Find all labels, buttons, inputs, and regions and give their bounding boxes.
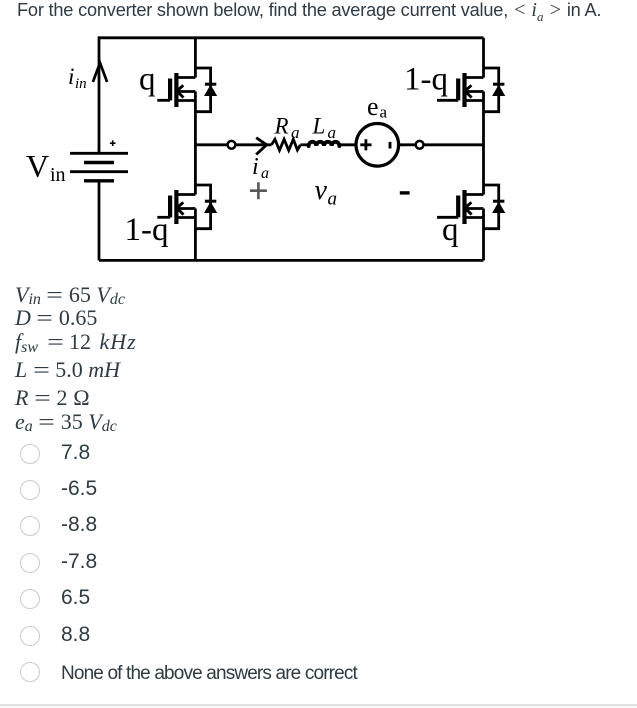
bottom divider xyxy=(0,704,637,705)
svg-text:q: q xyxy=(442,212,459,248)
label La xyxy=(312,113,337,142)
svg-text:i: i xyxy=(68,64,74,89)
label Ra xyxy=(274,113,300,142)
label va xyxy=(315,175,338,210)
parameter lines xyxy=(15,282,125,308)
svg-text:a: a xyxy=(328,189,338,210)
transistor Q2 (1-q) bottom-left MOSFET with body diode xyxy=(157,185,216,229)
wire resistor to inductor xyxy=(300,143,308,146)
svg-text:i: i xyxy=(252,154,259,180)
wire left leg xyxy=(194,38,197,261)
svg-text:in: in xyxy=(75,76,87,92)
wire right leg xyxy=(482,38,485,261)
node right open terminal xyxy=(416,141,424,149)
svg-text:a: a xyxy=(291,123,300,142)
wire bottom bus xyxy=(99,259,484,262)
wire top bus xyxy=(99,36,484,39)
svg-text:R: R xyxy=(274,113,289,138)
inductor La xyxy=(309,142,340,146)
svg-text:in: in xyxy=(50,164,66,186)
svg-text:q: q xyxy=(139,62,156,98)
source ea (circle) xyxy=(356,124,399,167)
answer options xyxy=(20,444,40,464)
label i_in xyxy=(68,64,87,92)
label - polarity of va xyxy=(400,191,410,194)
plus mark inside ea xyxy=(360,139,371,150)
current arrow i_a xyxy=(256,138,266,155)
transistor Q4 (q) bottom-right MOSFET with body diode xyxy=(437,185,504,229)
svg-text:a: a xyxy=(328,123,337,142)
svg-text:e: e xyxy=(367,92,379,121)
wire left edge upper xyxy=(98,36,101,152)
svg-text:1-q: 1-q xyxy=(125,212,169,248)
title xyxy=(17,0,601,25)
transistor Q1 (q) top-left MOSFET with body diode xyxy=(157,68,216,112)
svg-text:a: a xyxy=(261,165,269,182)
current arrow i_in xyxy=(93,63,107,82)
svg-text:V: V xyxy=(26,148,49,184)
svg-text:L: L xyxy=(312,113,326,138)
label ea xyxy=(367,92,388,122)
wire inductor to source ea xyxy=(340,143,357,146)
transistor Q3 (1-q) top-right MOSFET with body diode xyxy=(437,68,504,112)
svg-text:v: v xyxy=(315,175,328,206)
source Vin battery xyxy=(70,140,128,180)
wire left leg to node xyxy=(195,143,227,146)
node left open terminal xyxy=(228,141,236,149)
label i_a xyxy=(252,154,269,182)
wire node to resistor with arrow xyxy=(236,143,271,146)
wire left edge lower xyxy=(98,181,101,261)
minus mark inside ea xyxy=(389,142,392,149)
label Vin xyxy=(26,148,66,186)
svg-text:1-q: 1-q xyxy=(404,62,448,98)
resistor Ra xyxy=(272,139,301,150)
wire node right to right leg xyxy=(424,143,483,146)
label + polarity of va xyxy=(250,182,267,199)
svg-text:a: a xyxy=(380,103,388,122)
wire ea to node right xyxy=(399,143,415,146)
